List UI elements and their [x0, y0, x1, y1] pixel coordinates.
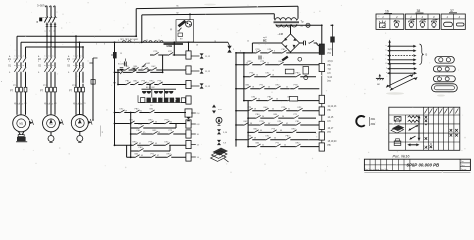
cluster rail	[142, 88, 177, 90]
contact	[133, 81, 138, 86]
diode slant	[282, 56, 289, 62]
svg-text:С3: С3	[83, 103, 85, 105]
cluster wires	[138, 89, 186, 102]
contact	[247, 61, 252, 66]
contactor К2 contact (wire 2)	[48, 55, 52, 62]
label	[161, 82, 163, 84]
label	[328, 49, 334, 51]
rail	[115, 123, 187, 125]
wire	[252, 43, 281, 53]
icon brake small	[394, 117, 401, 123]
legend table 1 frame	[376, 14, 404, 29]
relay coil РВ1	[186, 96, 191, 104]
wire	[300, 43, 320, 46]
svg-text:11,12,13: 11,12,13	[328, 106, 337, 108]
disconnect switch QF pole 2	[48, 16, 52, 24]
relay coil РВ3	[186, 130, 191, 138]
contact	[247, 136, 252, 141]
label	[288, 51, 289, 53]
svg-text:36: 36	[282, 116, 284, 118]
svg-text:РВ: РВ	[328, 145, 332, 147]
relay coil РП3	[186, 120, 191, 128]
label	[38, 61, 39, 63]
contact	[166, 153, 171, 158]
svg-text:л: л	[44, 55, 45, 57]
contact	[265, 73, 270, 78]
contact	[255, 114, 260, 119]
svg-text:ЗМ2: ЗМ2	[371, 123, 376, 126]
svg-text:30: 30	[272, 109, 274, 111]
contact	[259, 85, 264, 90]
contact	[287, 97, 292, 102]
svg-text:Д1: Д1	[170, 29, 172, 31]
contact	[260, 61, 265, 66]
contact	[265, 136, 270, 141]
wire	[50, 42, 52, 115]
bus A	[17, 35, 136, 37]
svg-text:Б: Б	[426, 53, 428, 57]
label	[14, 103, 16, 105]
label	[24, 103, 26, 105]
wire	[25, 47, 27, 115]
rail	[244, 100, 319, 102]
wire	[46, 26, 48, 36]
rail	[236, 110, 319, 112]
label	[139, 143, 141, 145]
svg-text:Лит: Лит	[461, 161, 464, 163]
contactor К3 contact (wire 3)	[80, 55, 84, 62]
svg-text:КЛ: КЛ	[328, 121, 331, 123]
pump symbol	[216, 117, 222, 125]
contact	[309, 40, 314, 44]
label	[68, 72, 70, 74]
svg-text:32: 32	[288, 109, 290, 111]
svg-text:11,12: 11,12	[205, 86, 211, 88]
rail	[248, 117, 316, 119]
svg-text:е: е	[386, 68, 387, 70]
svg-text:С3: С3	[24, 103, 26, 105]
label	[250, 123, 252, 125]
svg-text:л: л	[80, 55, 81, 57]
label	[104, 44, 105, 46]
svg-text:л: л	[18, 55, 19, 57]
label	[282, 116, 284, 118]
contact	[253, 128, 258, 133]
wire	[46, 23, 49, 27]
coil tail	[191, 124, 200, 126]
motor М2	[43, 115, 60, 132]
relay coil КЛ3	[319, 121, 324, 129]
x mark	[425, 120, 428, 123]
title block right box	[460, 159, 470, 171]
contact	[141, 81, 146, 86]
rail	[115, 71, 163, 73]
legend cell number	[395, 15, 398, 19]
svg-text:26: 26	[276, 98, 278, 100]
vertical	[162, 55, 164, 73]
junction	[79, 41, 81, 43]
disconnect switch QF pole 1	[44, 16, 48, 24]
svg-text:2: 2	[38, 61, 39, 63]
bus C	[26, 46, 84, 48]
contact	[285, 136, 290, 141]
label	[288, 109, 290, 111]
svg-text:6: 6	[274, 51, 275, 53]
svg-text:18: 18	[214, 41, 216, 43]
contact	[77, 65, 81, 72]
feed arrow	[387, 72, 417, 75]
supply label 3~50Hz	[37, 4, 46, 8]
label	[426, 53, 428, 57]
contact	[291, 128, 296, 133]
capacitor bank dark	[142, 91, 173, 94]
coil tail	[191, 145, 200, 147]
rail	[236, 88, 319, 90]
legend cell number	[421, 15, 424, 19]
label	[14, 59, 19, 61]
link pill C	[433, 76, 455, 82]
title block small text	[365, 168, 388, 171]
svg-text:≈24В: ≈24В	[166, 44, 172, 48]
label	[254, 138, 256, 140]
rectifier diodes	[284, 38, 296, 49]
legend symbol lamp3	[431, 19, 438, 28]
svg-text:14: 14	[256, 75, 258, 77]
label	[328, 132, 332, 134]
svg-text:16: 16	[196, 45, 198, 47]
title drawing number	[407, 162, 441, 167]
contact	[293, 114, 298, 119]
diag arrow	[386, 74, 414, 88]
x mark	[430, 146, 433, 149]
label	[256, 75, 258, 77]
label	[214, 41, 216, 43]
relay box	[303, 67, 309, 80]
wire	[46, 6, 48, 17]
icon zigzag 1	[408, 116, 419, 118]
svg-text:л: л	[23, 55, 24, 57]
label	[54, 103, 56, 105]
contact	[245, 85, 250, 90]
label РТ	[40, 90, 43, 93]
legend header 16	[384, 10, 392, 14]
svg-text:С1: С1	[73, 103, 75, 105]
wire	[79, 42, 81, 115]
svg-text:34: 34	[262, 116, 264, 118]
thermal relay heater	[46, 87, 49, 92]
vertical	[127, 124, 176, 158]
legend symbol pill1	[444, 22, 453, 26]
transformer Тр secondary	[276, 24, 297, 27]
svg-text:16,17: 16,17	[328, 128, 334, 130]
rail	[131, 133, 186, 135]
label	[262, 116, 264, 118]
contactor К2 contact (wire 1)	[44, 55, 48, 62]
legend cell number	[433, 15, 435, 19]
svg-text:М1: М1	[19, 123, 23, 126]
relay coil КЛ	[186, 51, 191, 59]
junction	[75, 35, 77, 37]
contact	[142, 66, 147, 71]
label	[328, 110, 332, 112]
brake YB	[16, 135, 27, 142]
label	[328, 141, 338, 143]
wire labels	[45, 104, 55, 106]
svg-text:25: 25	[161, 82, 163, 84]
label	[286, 87, 288, 89]
feed arrow	[387, 45, 417, 48]
label	[68, 55, 70, 58]
state table cols	[406, 107, 454, 150]
disconnect switch QF pole 3	[52, 16, 56, 24]
connector	[191, 68, 204, 73]
junction	[235, 124, 237, 126]
label	[44, 59, 49, 61]
svg-text:16: 16	[272, 75, 274, 77]
aux parts	[170, 29, 183, 41]
limit switch	[142, 63, 151, 67]
contactor К1 contact (wire 1)	[14, 55, 18, 62]
icon diag arrows 2	[409, 136, 415, 140]
svg-text:54: 54	[284, 144, 286, 146]
label	[247, 41, 249, 43]
wire	[50, 26, 52, 42]
label	[118, 40, 119, 42]
legend symbol lamp0	[394, 20, 399, 28]
svg-text:б: б	[386, 50, 387, 52]
svg-text:л м н: л м н	[73, 59, 78, 61]
edge speck	[1, 81, 2, 83]
label	[13, 85, 16, 87]
svg-text:л: л	[48, 55, 49, 57]
feed arrow	[387, 62, 417, 65]
label	[258, 98, 260, 100]
junction	[54, 46, 56, 48]
label	[256, 51, 257, 53]
label	[141, 68, 143, 70]
svg-text:к гл.: к гл.	[218, 109, 222, 111]
wire stubs	[321, 54, 323, 142]
label	[386, 54, 387, 56]
contact	[273, 114, 278, 119]
wire labels	[74, 104, 84, 106]
wire	[50, 132, 52, 135]
label	[9, 55, 11, 58]
junction	[321, 24, 323, 26]
junction	[46, 35, 48, 37]
contact	[23, 65, 27, 72]
micromotor	[186, 21, 192, 27]
label	[158, 132, 160, 134]
rail bumps	[122, 41, 163, 43]
rectifier В diamond	[282, 34, 300, 52]
switch label QF	[37, 18, 43, 25]
contact	[157, 81, 162, 86]
svg-text:С2: С2	[49, 103, 51, 105]
label	[386, 45, 388, 47]
svg-text:15: 15	[120, 53, 122, 55]
contact	[52, 65, 56, 72]
contact	[281, 107, 286, 112]
relay coil РП5	[319, 132, 324, 140]
contact	[14, 65, 18, 72]
rail	[248, 146, 319, 148]
contact	[149, 109, 154, 114]
svg-text:38: 38	[417, 9, 421, 13]
rail	[115, 144, 187, 146]
label	[157, 155, 159, 157]
label	[168, 98, 170, 100]
contact	[134, 109, 139, 114]
contact	[281, 49, 286, 54]
label	[328, 77, 333, 79]
rail	[236, 139, 319, 141]
svg-text:50: 50	[274, 138, 276, 140]
svg-text:9,10: 9,10	[328, 77, 333, 79]
label	[96, 44, 97, 46]
bold net label	[164, 43, 184, 48]
svg-text:3: 3	[104, 44, 105, 46]
svg-text:42: 42	[286, 123, 288, 125]
contact	[148, 141, 153, 146]
margin mark	[100, 126, 103, 137]
label	[196, 45, 198, 47]
label	[73, 103, 75, 105]
svg-text:20: 20	[268, 87, 270, 89]
rail	[236, 64, 319, 66]
thermal relay heater	[50, 87, 53, 92]
legend symbol pill2	[456, 23, 464, 26]
legend header 38	[416, 9, 424, 13]
rail	[236, 124, 319, 126]
svg-text:41: 41	[139, 143, 141, 145]
legend header 37	[449, 9, 457, 13]
contact	[243, 121, 248, 126]
contact	[267, 97, 272, 102]
capacitor	[304, 41, 309, 45]
pump	[77, 119, 83, 143]
label	[268, 87, 270, 89]
thermal relay heater	[54, 87, 57, 92]
wire	[50, 6, 52, 17]
svg-text:С3: С3	[54, 103, 56, 105]
contact	[255, 49, 260, 54]
label	[143, 132, 145, 134]
legend cell number	[458, 15, 461, 19]
scan noise	[10, 2, 466, 174]
svg-text:Листов: Листов	[461, 169, 466, 171]
vertical	[130, 112, 132, 159]
contact	[271, 128, 276, 133]
capacitor	[259, 53, 261, 60]
label	[19, 103, 21, 105]
contact	[164, 120, 169, 125]
label	[120, 53, 122, 55]
label	[328, 61, 334, 63]
thermal relay heater	[20, 87, 23, 92]
svg-text:С2: С2	[19, 103, 21, 105]
feed arrow dashed	[387, 54, 417, 57]
svg-text:10: 10	[246, 63, 248, 65]
svg-text:9: 9	[134, 40, 135, 42]
label	[328, 65, 332, 67]
link pill B	[433, 66, 455, 72]
svg-text:1: 1	[9, 61, 10, 63]
figure label	[393, 155, 411, 159]
relay coil РВ5	[319, 107, 324, 115]
label	[141, 155, 143, 157]
resistor R2	[289, 97, 297, 101]
label	[128, 70, 130, 72]
svg-text:РТ2: РТ2	[43, 85, 46, 87]
svg-text:11,12: 11,12	[205, 71, 211, 73]
svg-text:л: л	[14, 55, 15, 57]
legend symbol lamp2	[420, 19, 427, 28]
connector	[217, 129, 228, 134]
label	[170, 121, 172, 123]
x mark	[455, 134, 458, 137]
contact	[168, 51, 173, 56]
icon box2	[394, 139, 401, 146]
vertical	[117, 69, 119, 85]
contact	[134, 153, 139, 158]
rail	[118, 69, 186, 71]
label	[268, 123, 270, 125]
label	[276, 98, 278, 100]
svg-text:22: 22	[286, 87, 288, 89]
contact	[164, 141, 169, 146]
svg-text:С2: С2	[78, 103, 80, 105]
svg-text:ВС: ВС	[263, 39, 267, 43]
contact	[131, 68, 136, 73]
label	[44, 103, 46, 105]
label	[38, 72, 40, 74]
contact	[295, 143, 300, 148]
diode row	[141, 98, 186, 103]
label РТ	[69, 90, 72, 93]
thermal relay heater	[24, 87, 27, 92]
spine contact block	[111, 52, 117, 58]
contact	[295, 73, 300, 78]
contact	[259, 121, 264, 126]
clutch plates icon	[211, 148, 229, 162]
contactor К2 contact (wire 3)	[52, 55, 56, 62]
contact	[277, 121, 282, 126]
svg-text:29: 29	[125, 110, 127, 112]
contact	[295, 121, 300, 126]
icon diag arrows	[408, 125, 418, 131]
rail	[244, 76, 316, 78]
svg-text:РЭ: РЭ	[328, 53, 332, 55]
contactor К1 contact (wire 2)	[18, 55, 22, 62]
transformer core	[274, 21, 300, 24]
wire	[16, 36, 18, 115]
contact	[145, 68, 150, 73]
relay coil РП1	[186, 66, 191, 74]
label	[126, 40, 127, 42]
label 24V	[278, 33, 284, 36]
svg-text:КЛ: КЛ	[328, 73, 331, 75]
svg-text:л м н: л м н	[14, 59, 19, 61]
contact	[293, 85, 298, 90]
icon zigzag 2	[408, 120, 419, 122]
label	[260, 130, 262, 132]
label	[274, 51, 275, 53]
junction	[188, 41, 190, 43]
label	[328, 128, 334, 130]
contact	[18, 65, 22, 72]
svg-text:РВ: РВ	[328, 65, 332, 67]
